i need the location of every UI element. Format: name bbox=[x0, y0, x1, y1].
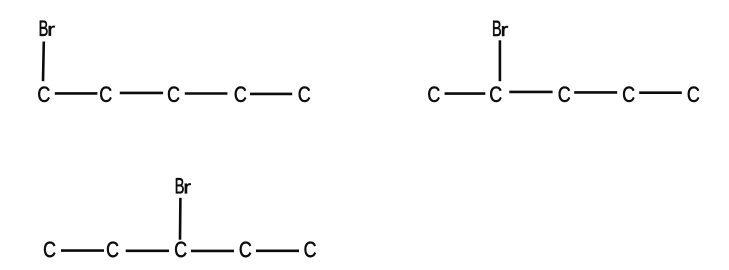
atom C2 (structure 2) bbox=[490, 87, 501, 103]
bond C3-C4 (structure 2) bbox=[574, 91, 617, 94]
bond Br-C2 vertical (structure 2) bbox=[499, 40, 502, 81]
atom C1 (structure 2) bbox=[428, 87, 439, 103]
bond C2-C3 (structure 2) bbox=[509, 91, 552, 94]
bond C3-C4 (structure 1) bbox=[185, 92, 228, 95]
atom C3 (structure 2) bbox=[559, 87, 570, 103]
substituent label Br (structure 3) bbox=[176, 178, 191, 193]
atom C5 (structure 3) bbox=[304, 242, 315, 258]
atom C4 (structure 1) bbox=[235, 87, 246, 103]
atom C2 (structure 1) bbox=[100, 87, 111, 103]
atom C5 (structure 1) bbox=[299, 87, 310, 103]
atom C4 (structure 2) bbox=[623, 87, 634, 103]
atom C5 (structure 2) bbox=[688, 87, 699, 103]
bond C4-C5 (structure 2) bbox=[639, 91, 682, 94]
atom C3 (structure 1) bbox=[168, 87, 179, 103]
bond C4-C5 (structure 3) bbox=[256, 250, 299, 253]
atom C1 (structure 1) bbox=[38, 87, 49, 103]
substituent label Br (structure 1) bbox=[40, 21, 55, 36]
substituent label Br (structure 2) bbox=[493, 21, 508, 36]
atom C4 (structure 3) bbox=[240, 242, 251, 258]
atom C1 (structure 3) bbox=[44, 242, 55, 258]
bond C4-C5 (structure 1) bbox=[250, 93, 292, 96]
atom C2 (structure 3) bbox=[107, 242, 118, 258]
bond C1-C2 (structure 2) bbox=[445, 92, 486, 95]
bond C3-C4 (structure 3) bbox=[191, 250, 234, 253]
bond Br-C3 vertical (structure 3) bbox=[179, 198, 182, 240]
bond C1-C2 (structure 3) bbox=[61, 249, 104, 252]
bond C2-C3 (structure 1) bbox=[120, 92, 163, 95]
atom C3 (structure 3) bbox=[175, 242, 186, 258]
bond C2-C3 (structure 3) bbox=[126, 250, 169, 253]
bond C1-C2 (structure 1) bbox=[55, 92, 98, 95]
bond Br-C1 vertical (structure 1) bbox=[42, 42, 45, 82]
